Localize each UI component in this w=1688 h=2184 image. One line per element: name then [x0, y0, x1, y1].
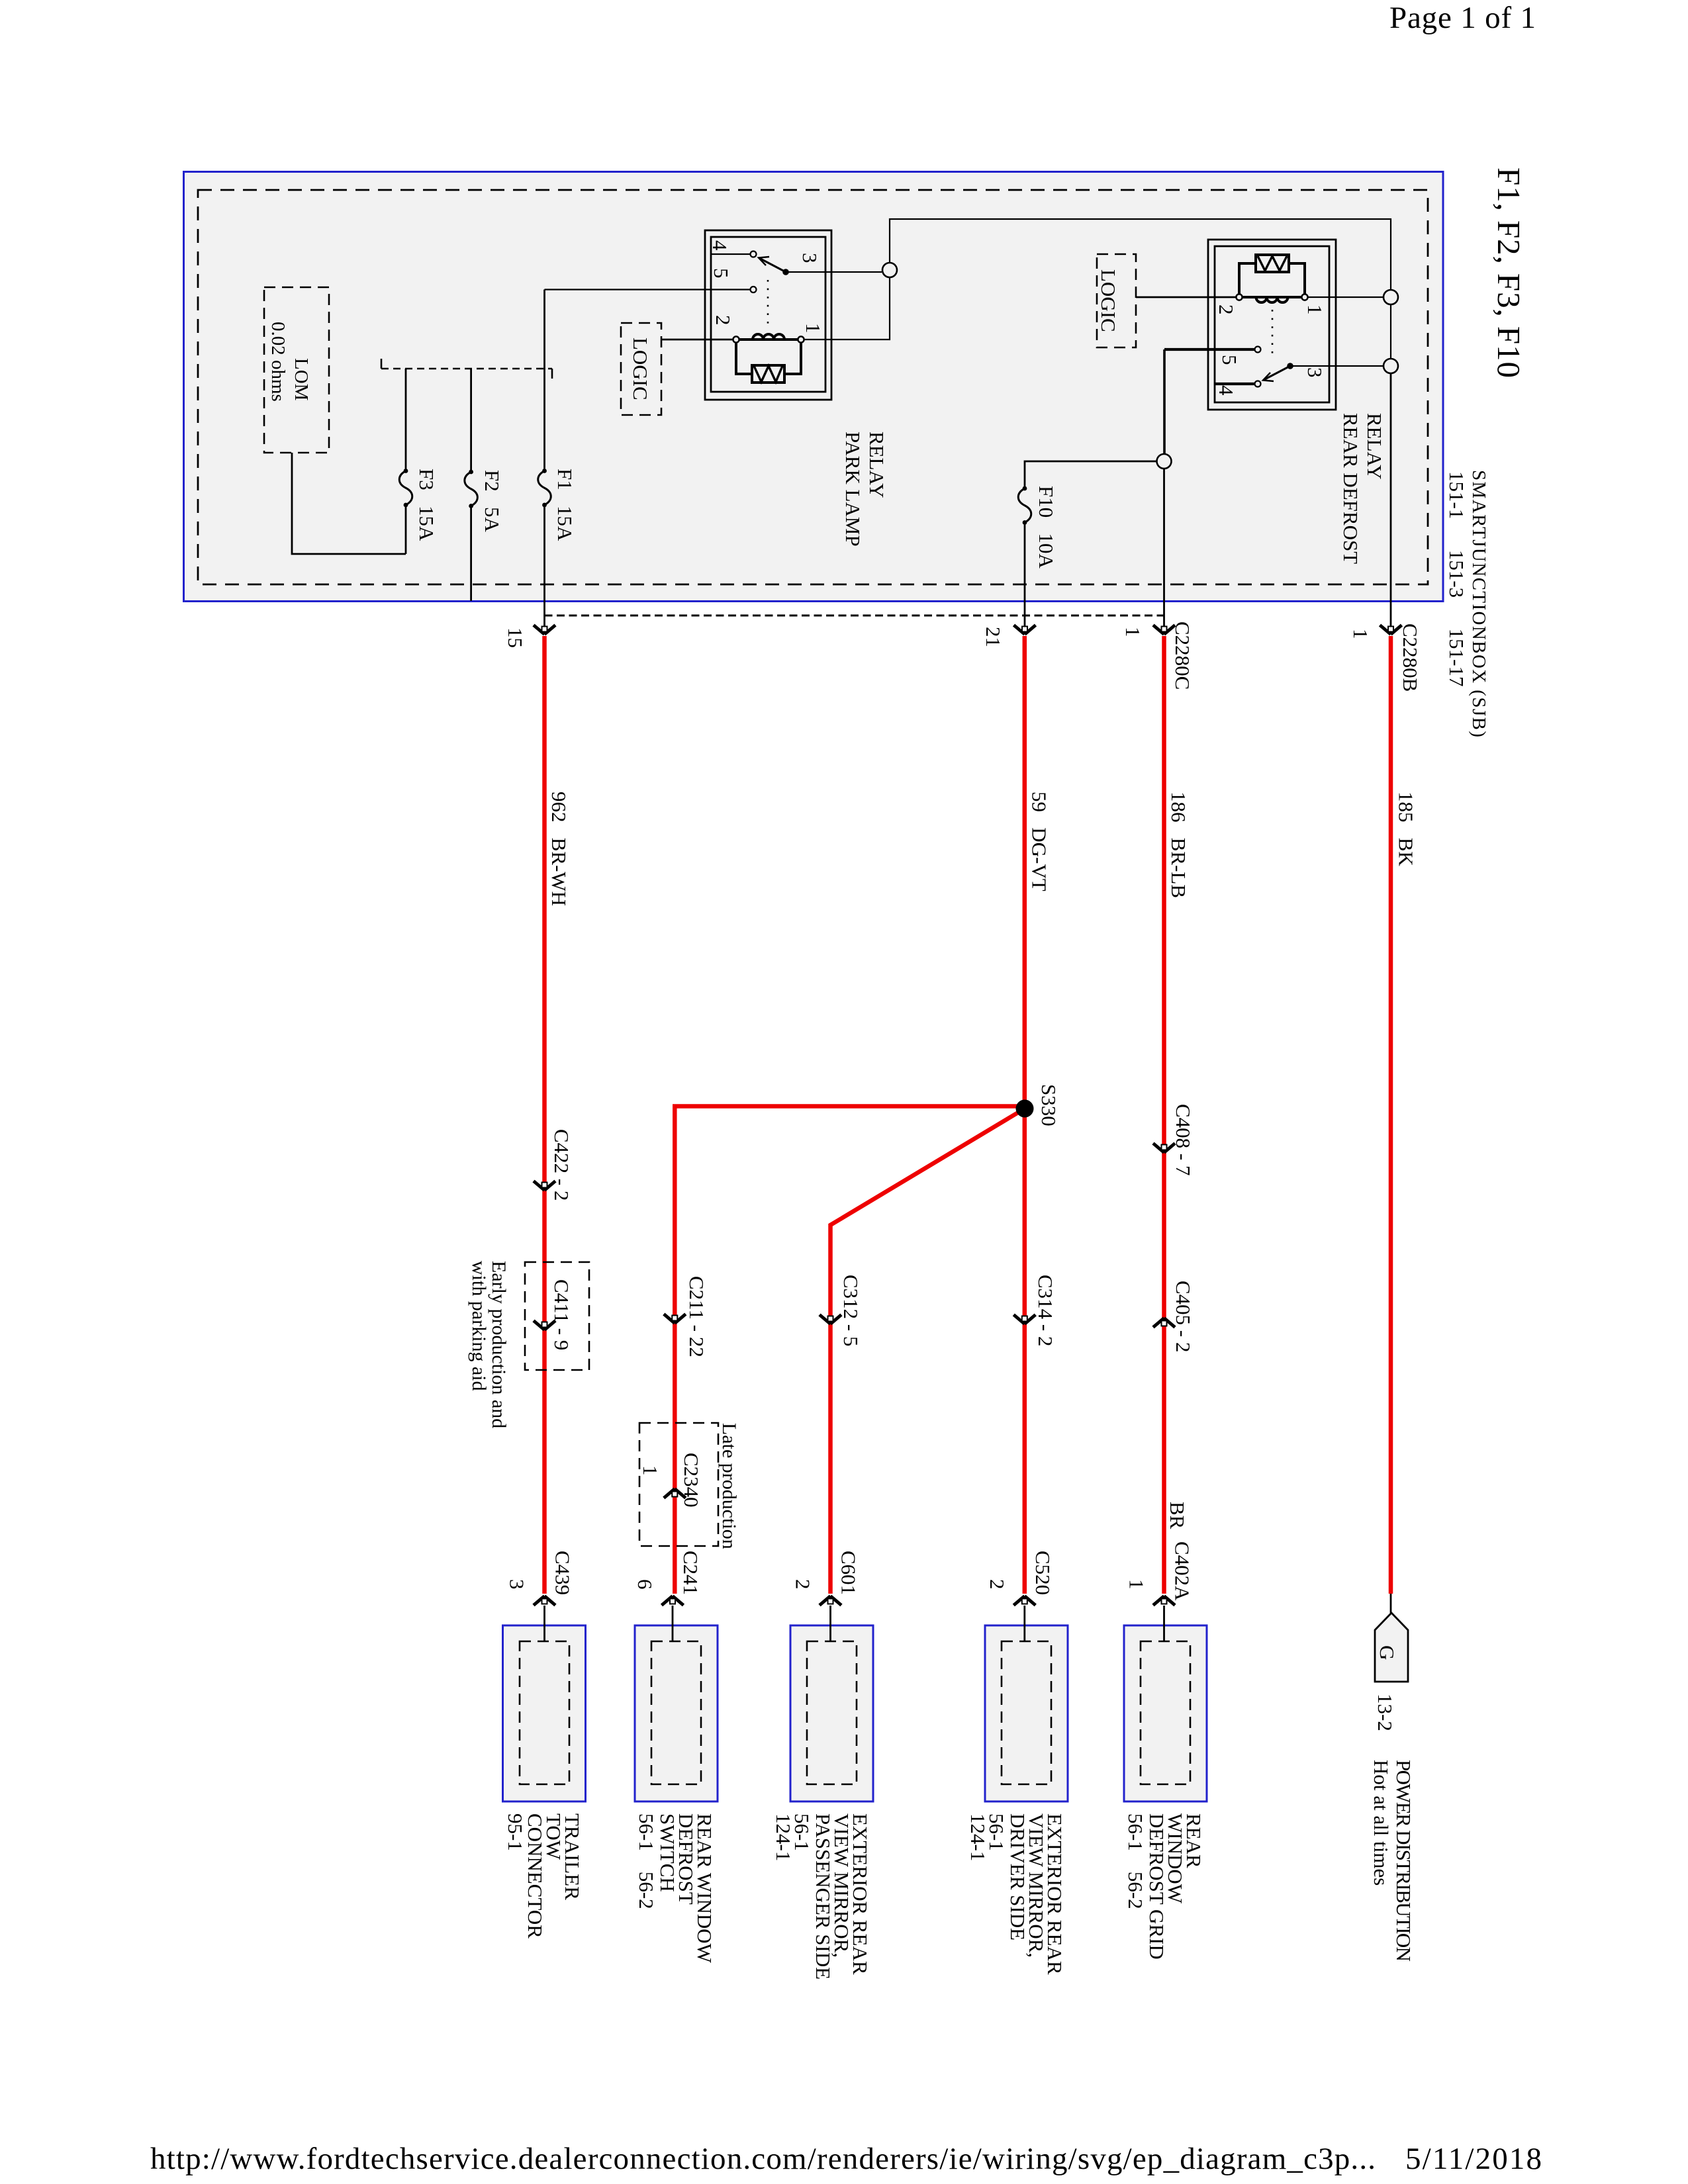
- park lamp relay inner box: [711, 237, 825, 392]
- svg-text:4: 4: [1215, 385, 1238, 396]
- park relay resistor leads: [736, 343, 801, 375]
- svg-text:LOGIC: LOGIC: [629, 338, 652, 400]
- svg-text:F10 10A: F10 10A: [1035, 486, 1058, 569]
- svg-text:C2280C: C2280C: [1171, 621, 1194, 690]
- svg-text:RELAY: RELAY: [1363, 413, 1386, 479]
- wire F10 to connector row: [1024, 523, 1026, 627]
- svg-text:S330: S330: [1037, 1084, 1060, 1126]
- bus junction circle (park relay): [882, 263, 897, 277]
- bus circle 2 (rear relay contact): [1383, 359, 1398, 373]
- wire rear relay pin5 down to junction: [1163, 349, 1166, 454]
- wire LOGIC to park relay pin 2: [661, 339, 733, 341]
- connector C211-22 arrow: [664, 1314, 686, 1324]
- park relay switch arm with arrowhead: [759, 258, 786, 272]
- svg-text:SWITCH: SWITCH: [656, 1813, 679, 1892]
- svg-text:3: 3: [506, 1579, 529, 1590]
- rear relay coil: [1236, 294, 1242, 300]
- connector C402A arrow: [1153, 1596, 1175, 1606]
- park relay pin 5 contact: [545, 289, 751, 290]
- wire into defrost grid: [1163, 1606, 1165, 1642]
- bus riser and top bus line: [890, 219, 1391, 290]
- svg-text:13-2: 13-2: [1374, 1694, 1397, 1731]
- park relay resistor: [752, 365, 784, 383]
- jumper end ticks: [381, 359, 552, 379]
- off-page reference G (power distribution): [1375, 1613, 1408, 1682]
- connector C411-9 arrow: [534, 1321, 555, 1330]
- connector C2340 arrow: [664, 1489, 686, 1498]
- park relay pin 3 line: [786, 271, 882, 273]
- fuse F10: [1018, 486, 1031, 525]
- wire F2 upper lead: [470, 369, 472, 472]
- rear relay pin 4 contact: [1215, 383, 1255, 385]
- component box EXTERIOR MIRROR PASSENGER: [790, 1625, 873, 1801]
- svg-text:Hot at all times: Hot at all times: [1370, 1760, 1393, 1886]
- svg-text:Page 1 of 1: Page 1 of 1: [1389, 1, 1536, 35]
- svg-text:C405 - 2: C405 - 2: [1172, 1281, 1195, 1353]
- svg-text:2: 2: [792, 1579, 815, 1590]
- connector C312-5 arrow: [820, 1315, 841, 1324]
- svg-text:F2 5A: F2 5A: [481, 470, 504, 532]
- svg-text:C601: C601: [837, 1551, 861, 1595]
- svg-text:SMARTJUNCTIONBOX (SJB): SMARTJUNCTIONBOX (SJB): [1468, 470, 1489, 737]
- wire LOGIC to rear relay pin 2: [1136, 296, 1237, 298]
- park relay pin 1 wire to bus circle: [804, 277, 890, 340]
- svg-text:5/11/2018: 5/11/2018: [1405, 2142, 1542, 2176]
- svg-text:3: 3: [798, 253, 821, 263]
- svg-text:3: 3: [1303, 367, 1327, 378]
- wire 185 BK into off-page reference: [1390, 1594, 1392, 1613]
- svg-text:C2340: C2340: [680, 1453, 703, 1508]
- connector C2280B arrow pin 1: [1380, 625, 1402, 635]
- svg-text:DRIVER SIDE: DRIVER SIDE: [1006, 1813, 1029, 1940]
- connector C405-2 arrow: [1153, 1318, 1175, 1328]
- svg-text:BR: BR: [1166, 1502, 1189, 1529]
- svg-text:95-1: 95-1: [504, 1813, 527, 1851]
- junction circle to F10: [1157, 454, 1172, 469]
- svg-text:C439: C439: [551, 1551, 575, 1595]
- svg-text:PARK LAMP: PARK LAMP: [841, 432, 865, 547]
- bus circle 1 (rear relay coil): [1383, 290, 1398, 304]
- rear defrost relay inner box: [1215, 246, 1329, 402]
- svg-text:LOGIC: LOGIC: [1097, 269, 1120, 332]
- rear defrost relay outer box: [1208, 240, 1336, 410]
- svg-text:C314 - 2: C314 - 2: [1034, 1275, 1057, 1347]
- connector C422-2 arrow: [534, 1181, 555, 1191]
- SJB inner dashed boundary: [198, 190, 1428, 584]
- component box EXTERIOR MIRROR DRIVER: [985, 1625, 1068, 1801]
- park relay linkage dotted: [767, 280, 769, 326]
- bus wire down to connector C2280B: [1390, 373, 1392, 627]
- svg-text:2: 2: [986, 1579, 1009, 1590]
- svg-text:POWER DISTRIBUTION: POWER DISTRIBUTION: [1392, 1760, 1415, 1962]
- connector C2280C arrow pin 1: [1153, 625, 1175, 635]
- svg-text:5: 5: [1218, 355, 1241, 365]
- svg-text:F3 15A: F3 15A: [415, 469, 438, 541]
- svg-text:1: 1: [1349, 629, 1372, 639]
- svg-text:C211 - 22: C211 - 22: [685, 1276, 708, 1357]
- rear relay pin 1 wire to bus: [1308, 296, 1384, 298]
- svg-text:186 BR-LB: 186 BR-LB: [1167, 792, 1190, 898]
- wire 185 BK (red): [1389, 636, 1393, 1594]
- svg-text:C411 - 9: C411 - 9: [550, 1279, 573, 1350]
- svg-text:124-1: 124-1: [966, 1813, 990, 1861]
- svg-text:C312 - 5: C312 - 5: [839, 1275, 863, 1347]
- svg-text:http://www.fordtechservice.dea: http://www.fordtechservice.dealerconnect…: [150, 2142, 1376, 2176]
- component box TRAILER TOW CONNECTOR: [503, 1625, 586, 1801]
- connector C241 arrow: [662, 1596, 684, 1606]
- svg-text:C402A: C402A: [1171, 1541, 1194, 1601]
- splice S330: [1016, 1100, 1034, 1118]
- wire from LOM to F3: [292, 453, 406, 554]
- LOGIC box (park lamp relay): [621, 323, 661, 415]
- svg-text:185 BK: 185 BK: [1395, 792, 1418, 866]
- wire 186 BR-LB (red): [1162, 636, 1166, 1594]
- svg-text:2: 2: [712, 315, 735, 326]
- svg-text:C2280B: C2280B: [1399, 623, 1422, 692]
- wire F2 lower lead to box edge: [470, 506, 472, 602]
- svg-text:Late production: Late production: [718, 1423, 740, 1549]
- svg-text:0.02 ohms: 0.02 ohms: [267, 322, 289, 402]
- svg-text:G: G: [1376, 1645, 1399, 1660]
- svg-text:2: 2: [1215, 304, 1238, 315]
- svg-text:1: 1: [802, 323, 825, 334]
- park relay coil: [733, 336, 739, 342]
- svg-text:151-1 151-3 151-17: 151-1 151-3 151-17: [1445, 471, 1468, 686]
- splice branch wire to C312 (red): [831, 1109, 1025, 1594]
- connector arrow pin 15: [534, 625, 555, 635]
- fuse F2: [465, 470, 478, 508]
- fuse F1: [538, 469, 551, 507]
- rear relay pin 5 contact: [1164, 348, 1255, 351]
- svg-text:1: 1: [1125, 1579, 1149, 1590]
- rear relay resistor leads: [1239, 263, 1305, 295]
- park lamp relay outer box: [705, 230, 831, 400]
- svg-text:REAR DEFROST: REAR DEFROST: [1339, 413, 1362, 564]
- splice branch wire to C211 (red): [675, 1107, 1025, 1594]
- rear relay resistor: [1256, 255, 1289, 272]
- wire into defrost switch: [672, 1606, 674, 1642]
- svg-text:1: 1: [1303, 304, 1327, 315]
- svg-text:1: 1: [1121, 627, 1145, 637]
- svg-text:C422 - 2: C422 - 2: [550, 1129, 573, 1201]
- svg-text:124-1: 124-1: [772, 1813, 795, 1861]
- svg-text:DEFROST GRID: DEFROST GRID: [1145, 1813, 1168, 1960]
- svg-text:56-1 56-2: 56-1 56-2: [1124, 1813, 1147, 1909]
- connector C601 arrow: [820, 1596, 841, 1606]
- wire junction to C2280C: [1163, 469, 1165, 627]
- svg-text:6: 6: [633, 1579, 657, 1590]
- svg-text:56-1 56-2: 56-1 56-2: [635, 1813, 658, 1909]
- svg-text:1: 1: [639, 1465, 662, 1476]
- rear relay switch arm with arrowhead: [1264, 366, 1290, 380]
- component box REAR WINDOW DEFROST GRID: [1124, 1625, 1207, 1801]
- svg-text:962 BR-WH: 962 BR-WH: [547, 792, 571, 906]
- svg-text:59 DG-VT: 59 DG-VT: [1028, 792, 1051, 891]
- fuse bus jumper (dashed): [381, 368, 552, 370]
- wire 962 BR-WH (red): [542, 636, 547, 1594]
- svg-text:Early production and: Early production and: [488, 1261, 510, 1428]
- svg-text:LOM: LOM: [291, 358, 312, 400]
- svg-text:5: 5: [710, 268, 733, 279]
- SJB connector face dashed line: [545, 615, 1164, 617]
- bus segment between circles: [1390, 304, 1391, 359]
- svg-text:C408 - 7: C408 - 7: [1172, 1104, 1195, 1176]
- wire 59 DG-VT (red): [1023, 636, 1027, 1594]
- svg-text:C520: C520: [1031, 1551, 1055, 1595]
- svg-text:F1, F2, F3, F10: F1, F2, F3, F10: [1491, 167, 1527, 378]
- wire into trailer tow connector: [543, 1606, 545, 1642]
- C2340 dashed box (late production): [639, 1423, 718, 1546]
- LOGIC box (rear defrost relay): [1097, 254, 1136, 347]
- wire F1 feed from relay pin 5 line: [543, 290, 545, 471]
- wire F1 lower lead to connector row: [543, 505, 545, 627]
- fuse F3: [399, 469, 412, 507]
- svg-text:15: 15: [504, 627, 527, 648]
- connector C314-2 arrow: [1013, 1315, 1035, 1324]
- rear relay linkage dotted: [1272, 310, 1274, 359]
- component box REAR WINDOW DEFROST SWITCH: [635, 1625, 718, 1801]
- svg-text:F1 15A: F1 15A: [553, 469, 577, 541]
- connector C439 arrow: [534, 1596, 555, 1606]
- connector C520 arrow: [1013, 1596, 1035, 1606]
- svg-text:PASSENGER SIDE: PASSENGER SIDE: [812, 1813, 835, 1979]
- C411 dashed box (early production): [525, 1262, 589, 1370]
- connector C408-7 arrow: [1153, 1144, 1175, 1153]
- svg-text:4: 4: [708, 240, 731, 251]
- LOM box: [264, 287, 329, 453]
- rear relay pin 3 line: [1290, 365, 1383, 367]
- wire into driver mirror: [1023, 1606, 1025, 1642]
- svg-text:with parking aid: with parking aid: [468, 1261, 490, 1391]
- svg-text:RELAY: RELAY: [865, 432, 888, 498]
- smart junction box SJB outline: [184, 172, 1444, 602]
- park relay pin 4 contact: [711, 253, 750, 255]
- connector arrow pin 21: [1014, 625, 1036, 635]
- wire junction to F10: [1025, 461, 1157, 488]
- wire into passenger mirror: [829, 1606, 831, 1642]
- svg-text:21: 21: [982, 627, 1005, 647]
- svg-text:C241: C241: [679, 1551, 702, 1595]
- wire F3 upper lead: [405, 369, 407, 471]
- wire F3 lower lead: [405, 505, 407, 554]
